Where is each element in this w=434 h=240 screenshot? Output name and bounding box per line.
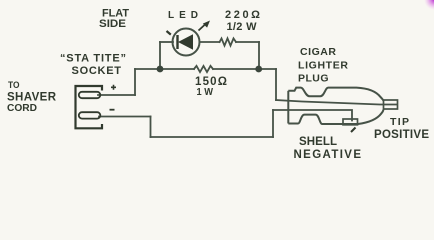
label SHELL NEGATIVE — [294, 136, 362, 161]
socket J1 bottom slot — [79, 112, 101, 118]
svg-text:1 W: 1 W — [197, 86, 214, 98]
label R2 value 150 ohm — [195, 76, 227, 98]
resistor R2 150 ohm zigzag — [194, 66, 213, 72]
junction node B — [255, 66, 262, 73]
shell pointer tick — [351, 128, 356, 133]
minus sign — [110, 109, 115, 111]
svg-text:POSITIVE: POSITIVE — [374, 129, 429, 141]
socket J1 bracket — [76, 86, 103, 128]
wire: middle branch left segment — [135, 68, 194, 70]
wire: R1 to right corner — [236, 41, 259, 43]
svg-text:TO: TO — [8, 80, 20, 91]
cigar lighter plug P1 outline — [288, 88, 383, 124]
svg-text:PLUG: PLUG — [298, 72, 329, 84]
wire: bottom loop riser to plug — [272, 110, 274, 137]
LED D1 — [173, 29, 200, 56]
svg-text:LIGHTER: LIGHTER — [298, 59, 348, 71]
plus sign — [111, 85, 116, 90]
svg-text:SIDE: SIDE — [99, 18, 126, 30]
label STA TITE SOCKET — [60, 53, 126, 78]
svg-text:NEGATIVE: NEGATIVE — [294, 149, 362, 161]
wire: middle branch right segment — [213, 68, 276, 70]
plug shell side contact — [343, 119, 358, 125]
svg-text:SOCKET: SOCKET — [72, 65, 122, 77]
svg-text:220Ω: 220Ω — [225, 9, 260, 21]
label TIP POSITIVE — [374, 116, 429, 141]
LED emission arrow — [199, 21, 211, 31]
wire: LED branch left vertical — [159, 42, 161, 69]
label FLAT SIDE — [99, 7, 129, 30]
wire: right vertical of top branch — [258, 42, 260, 69]
socket J1 top slot — [79, 92, 101, 98]
wire: shell conductor into plug — [273, 110, 352, 121]
scan artifact blob top-right corner — [424, 0, 434, 10]
resistor R1 220 ohm zigzag — [220, 38, 237, 45]
svg-text:SHELL: SHELL — [299, 136, 337, 148]
svg-text:LED: LED — [168, 10, 198, 21]
svg-text:CORD: CORD — [7, 102, 37, 114]
junction node A — [157, 66, 164, 73]
svg-text:TIP: TIP — [390, 116, 409, 128]
plug tip — [384, 100, 398, 109]
wire: socket plus lead — [98, 94, 135, 96]
wire: bottom loop across — [151, 136, 274, 138]
wire: bottom loop down — [150, 117, 152, 138]
flat-side pointer tick — [167, 31, 171, 35]
label TO SHAVER CORD — [7, 80, 57, 114]
wire: LED branch to LED anode — [160, 41, 173, 43]
wire: socket minus lead — [99, 116, 151, 118]
label CIGAR LIGHTER PLUG — [298, 46, 348, 84]
wire: junction to plug drop — [275, 69, 277, 100]
svg-text:1/2 W: 1/2 W — [227, 21, 258, 33]
wire: tip conductor into plug — [276, 100, 397, 105]
svg-text:“STA TITE”: “STA TITE” — [60, 53, 126, 65]
wire: socket plus riser — [134, 69, 136, 95]
svg-text:CIGAR: CIGAR — [300, 46, 336, 58]
wire: LED cathode to resistor R1 — [200, 41, 220, 43]
label R1 value 220 ohm — [225, 9, 260, 33]
